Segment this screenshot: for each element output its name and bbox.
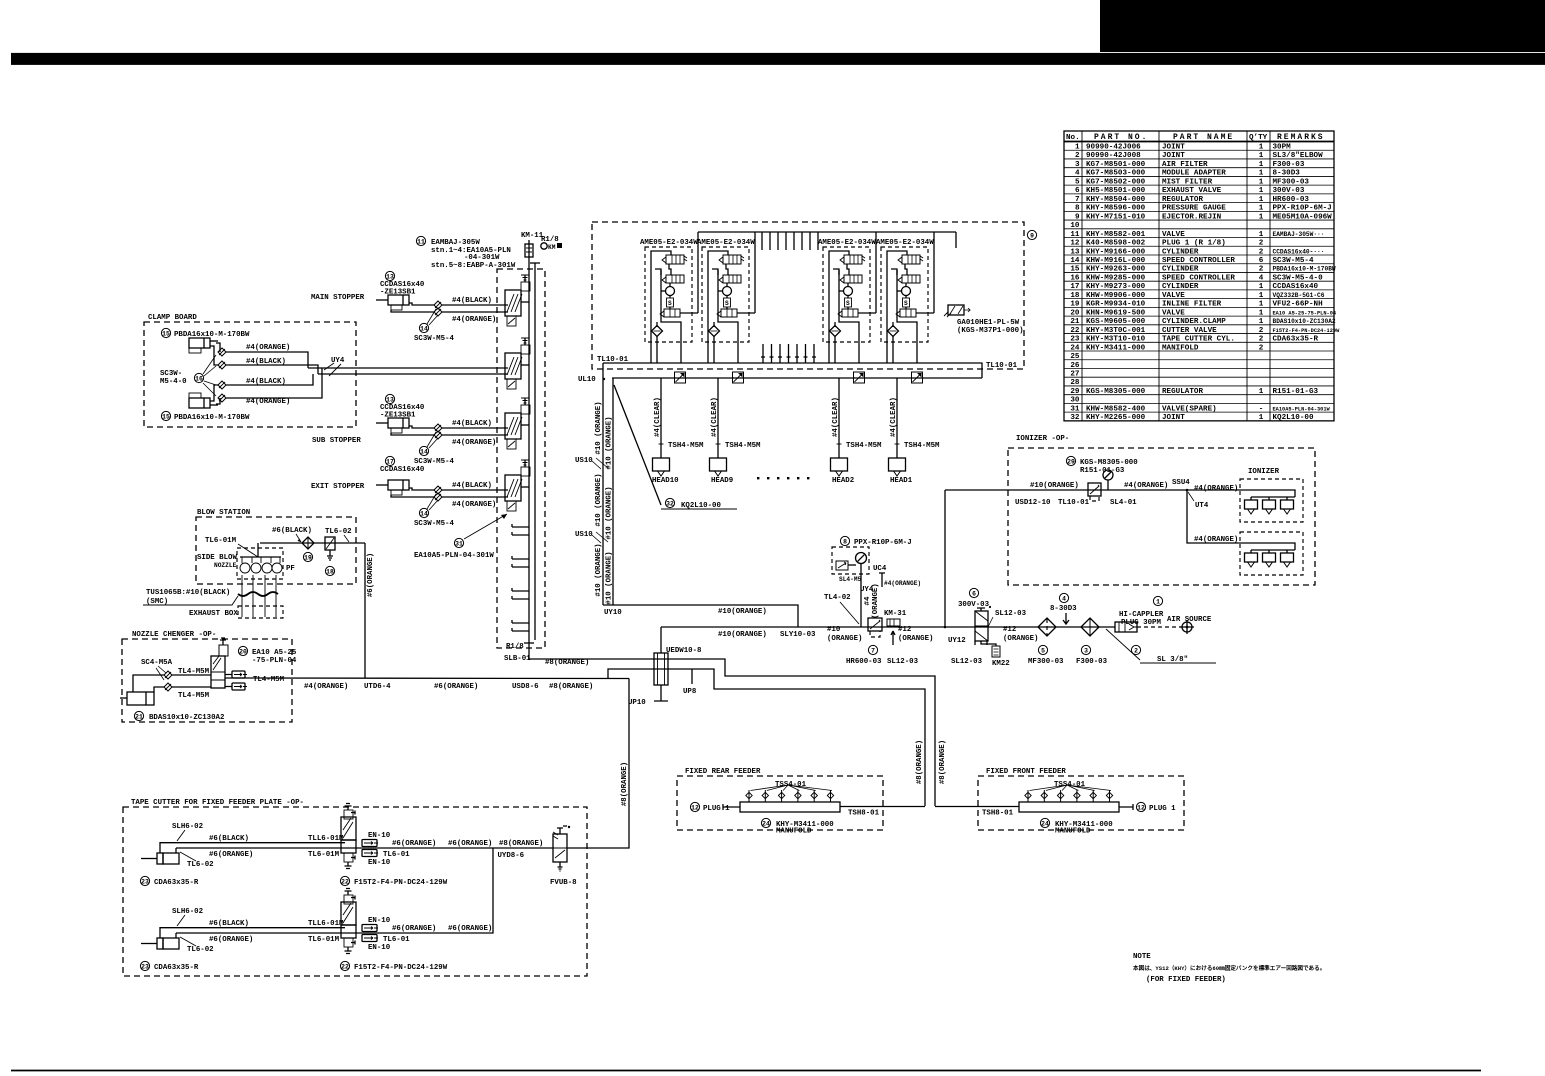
svg-text:#4(ORANGE): #4(ORANGE) <box>246 344 290 352</box>
svg-text:1: 1 <box>1259 178 1264 186</box>
svg-text:SSU4: SSU4 <box>1172 479 1190 487</box>
svg-text:MANUFOLD: MANUFOLD <box>776 828 812 836</box>
svg-text:NOZZLE CHENGER -OP-: NOZZLE CHENGER -OP- <box>132 631 216 639</box>
svg-text:UT4: UT4 <box>1195 502 1209 510</box>
svg-text:VALVE: VALVE <box>1162 231 1185 239</box>
svg-text:AME05-E2-034W: AME05-E2-034W <box>640 239 698 247</box>
svg-text:(ORANGE): (ORANGE) <box>872 583 880 618</box>
svg-text:CCDAS16x40: CCDAS16x40 <box>1273 283 1319 291</box>
svg-text:11: 11 <box>417 238 425 245</box>
svg-text:1: 1 <box>1259 152 1264 160</box>
svg-text:5: 5 <box>1075 178 1080 186</box>
svg-text:20: 20 <box>1070 309 1080 317</box>
svg-text:#4(CLEAR): #4(CLEAR) <box>711 397 719 437</box>
wire #4(BLACK) lower <box>226 374 313 385</box>
wires cylinder upper to controllers <box>216 343 220 352</box>
svg-text:SL4-M5: SL4-M5 <box>839 576 862 583</box>
svg-text:#10: #10 <box>827 626 841 634</box>
plugged station 6 <box>512 559 529 567</box>
svg-text:TSH8-01: TSH8-01 <box>848 810 880 818</box>
svg-text:KHW-M9285-000: KHW-M9285-000 <box>1086 274 1146 282</box>
svg-text:1: 1 <box>1259 161 1264 169</box>
svg-text:6: 6 <box>972 590 976 597</box>
module adapter 4 8-30D3 <box>1059 593 1068 602</box>
svg-text:MODULE ADAPTER: MODULE ADAPTER <box>1162 170 1226 178</box>
svg-text:4: 4 <box>1062 595 1066 602</box>
head HEAD2 <box>838 378 840 458</box>
bank valve 2 (clamp) <box>505 353 521 379</box>
svg-text:PART NO.: PART NO. <box>1094 133 1148 142</box>
svg-text:#4(ORANGE): #4(ORANGE) <box>304 683 348 691</box>
svg-text:9: 9 <box>1075 213 1080 221</box>
svg-text:14: 14 <box>1070 257 1080 265</box>
comb stubs bottom (heads 3-8) <box>761 344 816 363</box>
svg-text:KGS-M8305-000: KGS-M8305-000 <box>1086 388 1146 396</box>
svg-text:15: 15 <box>162 330 170 337</box>
svg-text:2: 2 <box>1259 248 1264 256</box>
svg-text:29: 29 <box>1067 458 1075 465</box>
svg-text:26: 26 <box>1070 362 1080 370</box>
svg-text:REGULATOR: REGULATOR <box>1162 388 1203 396</box>
svg-text:BDAS10x10-ZC130A2: BDAS10x10-ZC130A2 <box>149 714 224 722</box>
svg-text:2: 2 <box>1259 266 1264 274</box>
front feeder supply <box>935 806 1019 808</box>
joint 1 HI-CAPPLER <box>1153 596 1162 605</box>
part labels <box>140 876 149 885</box>
svg-text:TSH4-M5M: TSH4-M5M <box>668 442 704 450</box>
svg-text:PLUG 1 (R 1/8): PLUG 1 (R 1/8) <box>1162 240 1226 248</box>
svg-text:KHY-M8582-001: KHY-M8582-001 <box>1086 231 1146 239</box>
quick exhaust head10 <box>675 372 686 383</box>
svg-text:8: 8 <box>1075 205 1080 213</box>
svg-text:16: 16 <box>1070 274 1080 282</box>
supply drop lines US10 <box>602 363 604 605</box>
svg-text:ME05M10A-096W: ME05M10A-096W <box>1273 213 1333 221</box>
svg-text:2: 2 <box>1259 240 1264 248</box>
svg-text:90990-42J006: 90990-42J006 <box>1086 144 1141 152</box>
svg-text:23: 23 <box>141 878 149 885</box>
bank valve 4 (exit stopper) <box>505 475 521 501</box>
svg-text:HR600-03: HR600-03 <box>846 658 882 666</box>
svg-text:#6(ORANGE): #6(ORANGE) <box>367 553 375 597</box>
svg-text:#4: #4 <box>864 596 872 605</box>
svg-text:#10(ORANGE): #10(ORANGE) <box>1030 482 1079 490</box>
wire #4(BLACK) upper <box>226 365 318 374</box>
svg-text:(ORANGE): (ORANGE) <box>898 635 933 643</box>
svg-text:KM: KM <box>548 244 556 251</box>
speed controller 16d <box>218 394 226 402</box>
svg-text:KHY-M3T10-010: KHY-M3T10-010 <box>1086 336 1146 344</box>
svg-text:#4(CLEAR): #4(CLEAR) <box>654 397 662 437</box>
svg-text:22: 22 <box>1070 327 1080 335</box>
speed controller 14b <box>434 493 442 501</box>
svg-text:KM22: KM22 <box>992 660 1010 668</box>
svg-text:#4(BLACK): #4(BLACK) <box>246 378 286 386</box>
speed controller 14a <box>434 486 442 494</box>
svg-text:-04-301W: -04-301W <box>464 254 500 262</box>
svg-text:(ORANGE): (ORANGE) <box>1003 635 1038 643</box>
svg-text:UL10: UL10 <box>578 376 596 384</box>
svg-text:VFU2-66P-NH: VFU2-66P-NH <box>1273 301 1324 309</box>
svg-text:PPX-R10P-6M-J: PPX-R10P-6M-J <box>854 539 912 547</box>
svg-text:UTD6-4: UTD6-4 <box>364 683 391 691</box>
main line from nozzle changer <box>225 677 629 680</box>
svg-text:HEAD2: HEAD2 <box>832 477 854 485</box>
svg-text:2: 2 <box>1259 327 1264 335</box>
nozzle changer dashed box <box>122 639 292 722</box>
svg-text:#10 (ORANGE): #10 (ORANGE) <box>606 551 614 604</box>
svg-text:#6(BLACK): #6(BLACK) <box>209 920 249 928</box>
wire USD8-6 to manifold <box>608 669 925 806</box>
pilot risers <box>697 232 699 313</box>
valve FVUB-8 <box>553 834 567 862</box>
svg-text:3: 3 <box>1075 161 1080 169</box>
svg-text:KHW-M916L-000: KHW-M916L-000 <box>1086 257 1146 265</box>
speed controller 16a <box>218 348 226 356</box>
speed controller 16c <box>218 381 226 389</box>
svg-text:US10: US10 <box>575 531 593 539</box>
svg-text:15: 15 <box>1070 266 1080 274</box>
svg-text:30PM: 30PM <box>1273 144 1292 152</box>
wires to speed controllers <box>409 303 434 305</box>
svg-text:MF300-03: MF300-03 <box>1273 178 1310 186</box>
bus UY10 <box>603 605 798 627</box>
EN-10 fittings <box>232 671 245 678</box>
wires to speed controllers <box>409 426 434 428</box>
svg-text:TL4-M5M: TL4-M5M <box>253 676 285 684</box>
svg-text:SPEED CONTROLLER: SPEED CONTROLLER <box>1162 257 1235 265</box>
cylinder label <box>385 271 394 280</box>
clamp board dashed box <box>144 322 356 427</box>
svg-text:#10 (ORANGE): #10 (ORANGE) <box>606 486 614 539</box>
svg-text:13: 13 <box>386 396 394 403</box>
svg-text:CYLINDER: CYLINDER <box>1162 248 1199 256</box>
svg-text:TLL6-01M: TLL6-01M <box>308 920 344 928</box>
svg-text:TUS1065B:#10(BLACK): TUS1065B:#10(BLACK) <box>146 589 230 597</box>
svg-text:KHY-M3T0C-001: KHY-M3T0C-001 <box>1086 327 1146 335</box>
svg-text:11: 11 <box>1070 231 1080 239</box>
rear feeder supply <box>840 806 925 808</box>
svg-text:#6(ORANGE): #6(ORANGE) <box>448 840 492 848</box>
svg-text:IONIZER: IONIZER <box>1248 468 1280 476</box>
svg-text:SL4-01: SL4-01 <box>1110 499 1137 507</box>
svg-text:#4(ORANGE): #4(ORANGE) <box>1194 485 1238 493</box>
svg-text:1: 1 <box>1259 318 1264 326</box>
exhaust valve 6 300V-03 <box>969 588 978 597</box>
cylinder 15 label (upper) <box>161 328 170 337</box>
svg-text:19: 19 <box>1070 301 1080 309</box>
ionizer branch line <box>1187 490 1295 550</box>
svg-text:KM-31: KM-31 <box>884 610 907 618</box>
svg-text:3: 3 <box>1084 647 1088 654</box>
svg-text:#4(ORANGE): #4(ORANGE) <box>1194 536 1238 544</box>
head HEAD9 <box>717 378 719 458</box>
svg-text:TL4-M5M: TL4-M5M <box>178 668 210 676</box>
quick exhaust head2 <box>854 372 865 383</box>
svg-text:#8(ORANGE): #8(ORANGE) <box>549 683 593 691</box>
svg-text:#10 (ORANGE): #10 (ORANGE) <box>595 543 603 596</box>
svg-text:Q’TY: Q’TY <box>1249 134 1268 142</box>
svg-text:(FOR FIXED FEEDER): (FOR FIXED FEEDER) <box>1146 976 1226 984</box>
svg-text:EAMBAJ-305W···: EAMBAJ-305W··· <box>1273 231 1325 238</box>
head pilot top bus <box>698 231 956 233</box>
quick exhaust head9 <box>733 372 744 383</box>
ionizer bar 2 <box>1240 532 1303 575</box>
svg-text:TSH4-M5M: TSH4-M5M <box>904 442 940 450</box>
svg-text:PBDA16x10-M-170BW: PBDA16x10-M-170BW <box>174 331 250 339</box>
svg-text:1: 1 <box>1259 388 1264 396</box>
svg-text:SC3W-M5-4: SC3W-M5-4 <box>414 335 454 343</box>
svg-text:AME05-E2-034W: AME05-E2-034W <box>818 239 876 247</box>
svg-text:21: 21 <box>135 713 143 720</box>
label 9 <box>1027 230 1036 239</box>
svg-text:21: 21 <box>1070 318 1080 326</box>
svg-text:KHY-M3411-000: KHY-M3411-000 <box>1086 344 1146 352</box>
svg-text:F15T2-F4-PN-DC24-129W: F15T2-F4-PN-DC24-129W <box>1273 328 1341 334</box>
svg-text:CLAMP BOARD: CLAMP BOARD <box>148 314 197 322</box>
svg-text:2: 2 <box>1134 647 1138 654</box>
drop to tape cutter <box>567 679 629 849</box>
svg-text:2: 2 <box>1075 152 1080 160</box>
svg-text:17: 17 <box>386 458 394 465</box>
svg-text:S: S <box>668 300 672 307</box>
muffler KM22 <box>981 641 996 646</box>
ionizer bar 1 <box>1240 479 1303 522</box>
speed controller 14a <box>434 301 442 309</box>
svg-text:19: 19 <box>304 554 312 561</box>
svg-text:EA10 A5-25-75-PLN-04: EA10 A5-25-75-PLN-04 <box>1273 310 1337 316</box>
bank supply bus <box>528 240 530 659</box>
valve GA010HE1 <box>948 305 964 315</box>
regulator symbol 29 <box>1088 483 1101 496</box>
svg-text:TL4-M5M: TL4-M5M <box>178 692 210 700</box>
wire #4(ORANGE) upper <box>226 352 308 368</box>
cylinder 15 label (lower) <box>161 411 170 420</box>
svg-text:14: 14 <box>420 448 428 455</box>
svg-text:#10 (ORANGE): #10 (ORANGE) <box>595 401 603 454</box>
svg-text:UY12: UY12 <box>948 637 966 645</box>
svg-text:TLL6-01M: TLL6-01M <box>308 835 344 843</box>
svg-text:CCDAS16x40: CCDAS16x40 <box>380 466 425 474</box>
svg-text:PLUG 30PM: PLUG 30PM <box>1121 619 1161 627</box>
svg-text:F300-03: F300-03 <box>1273 161 1305 169</box>
svg-text:本図は、YS12（KHY）における60㎜固定バンクを標準エア: 本図は、YS12（KHY）における60㎜固定バンクを標準エアー回路図である。 <box>1133 964 1325 972</box>
plugged station 8 <box>512 623 529 631</box>
svg-text:#4(CLEAR): #4(CLEAR) <box>832 397 840 437</box>
svg-text:9: 9 <box>1030 232 1034 239</box>
svg-text:MANIFOLD: MANIFOLD <box>1162 344 1199 352</box>
pressure gauge 8 <box>840 536 849 545</box>
svg-text:KGS-M8305-000: KGS-M8305-000 <box>1080 459 1138 467</box>
regulator 7 HR600-03 <box>868 618 882 631</box>
svg-text:#4(ORANGE): #4(ORANGE) <box>452 439 496 447</box>
svg-text:SL12-03: SL12-03 <box>887 658 919 666</box>
svg-text:F300-03: F300-03 <box>1076 658 1108 666</box>
blow station feed drop <box>364 543 366 678</box>
quick exhaust head1 <box>912 372 923 383</box>
svg-text:EA10 A5-25: EA10 A5-25 <box>252 649 297 657</box>
svg-text:GA010HE1-PL-5W: GA010HE1-PL-5W <box>957 319 1020 327</box>
svg-text:INLINE FILTER: INLINE FILTER <box>1162 301 1222 309</box>
svg-text:UP10: UP10 <box>628 699 646 707</box>
svg-text:25: 25 <box>1070 353 1080 361</box>
svg-text:TL6-01M: TL6-01M <box>308 936 340 944</box>
svg-text:SLH6-02: SLH6-02 <box>172 908 203 916</box>
svg-text:18: 18 <box>1070 292 1080 300</box>
head section dashed box <box>592 222 1024 369</box>
svg-text:SL12-03: SL12-03 <box>951 658 983 666</box>
svg-text:SC3W-M5-4: SC3W-M5-4 <box>414 458 454 466</box>
svg-text:SL12-03: SL12-03 <box>995 610 1027 618</box>
svg-text:SC3W-M5-4: SC3W-M5-4 <box>414 520 454 528</box>
svg-text:R151-01-G3: R151-01-G3 <box>1080 467 1125 475</box>
cylinder PBDA upper <box>189 338 210 348</box>
svg-text:VALVE: VALVE <box>1162 292 1185 300</box>
row2 orange wire <box>176 848 493 933</box>
svg-text:EN-10: EN-10 <box>368 859 391 867</box>
svg-text:#4(ORANGE): #4(ORANGE) <box>452 501 496 509</box>
svg-text:32: 32 <box>1070 414 1080 422</box>
speed controller 14b <box>434 308 442 316</box>
pointer lines 16 <box>203 355 216 374</box>
svg-text:AME05-E2-034W: AME05-E2-034W <box>697 239 755 247</box>
svg-text:4: 4 <box>1075 170 1080 178</box>
svg-text:31: 31 <box>1070 405 1080 413</box>
svg-text:CYLINDER: CYLINDER <box>1162 266 1199 274</box>
svg-text:32: 32 <box>666 500 674 507</box>
svg-text:TSH4-M5M: TSH4-M5M <box>846 442 882 450</box>
svg-text:SPEED CONTROLLER: SPEED CONTROLLER <box>1162 274 1235 282</box>
comb stubs top (heads 3-8) <box>762 232 818 250</box>
mist filter 5 MF300-03 <box>1038 618 1056 636</box>
svg-text:KH5-M8501-000: KH5-M8501-000 <box>1086 187 1146 195</box>
cylinder 21 clamp <box>127 692 154 705</box>
node SL12-03 a <box>891 631 895 645</box>
svg-text:8-30D3: 8-30D3 <box>1050 605 1077 613</box>
cylinder CCDAS <box>388 295 409 305</box>
air filter 3 F300-03 <box>1081 618 1099 636</box>
svg-text:VALVE(SPARE): VALVE(SPARE) <box>1162 405 1217 413</box>
svg-text:7: 7 <box>871 647 875 654</box>
svg-text:SC3W-M5-4-0: SC3W-M5-4-0 <box>1273 274 1324 282</box>
svg-text:UC4: UC4 <box>873 565 887 573</box>
svg-text:UY10: UY10 <box>604 609 622 617</box>
svg-text:1: 1 <box>1259 283 1264 291</box>
svg-text:1: 1 <box>1259 309 1264 317</box>
ellipsis heads 3-8 <box>757 477 809 479</box>
wire #4(BLACK) <box>442 489 508 491</box>
svg-text:EXIT STOPPER: EXIT STOPPER <box>311 483 365 491</box>
valve 31 spare label <box>454 538 463 547</box>
svg-text:-: - <box>1259 405 1264 413</box>
svg-text:17: 17 <box>1070 283 1080 291</box>
svg-text:#4(ORANGE): #4(ORANGE) <box>246 398 290 406</box>
svg-text:12: 12 <box>1137 804 1145 811</box>
svg-text:EJECTOR.REJIN: EJECTOR.REJIN <box>1162 213 1222 221</box>
svg-text:TSH8-01: TSH8-01 <box>982 810 1014 818</box>
svg-text:-75-PLN-04: -75-PLN-04 <box>252 657 297 665</box>
bank valve 1 (main stopper) <box>505 290 521 316</box>
svg-text:EN-10: EN-10 <box>368 944 391 952</box>
svg-text:FIXED REAR FEEDER: FIXED REAR FEEDER <box>685 768 761 776</box>
valve bank dashed box <box>497 269 545 648</box>
wire #4(BLACK) <box>442 427 508 429</box>
svg-text:UEDW10-8: UEDW10-8 <box>666 647 702 655</box>
svg-text:6: 6 <box>1259 257 1264 265</box>
svg-text:JOINT: JOINT <box>1162 414 1185 422</box>
svg-text:#4(ORANGE): #4(ORANGE) <box>884 580 921 587</box>
speed controller 14a <box>434 424 442 432</box>
cylinder label <box>385 394 394 403</box>
svg-text:20: 20 <box>239 648 247 655</box>
svg-text:NOZZLE: NOZZLE <box>214 562 237 569</box>
svg-text:22: 22 <box>341 963 349 970</box>
svg-text:#10(ORANGE): #10(ORANGE) <box>718 608 767 616</box>
svg-text:PF: PF <box>286 565 295 573</box>
svg-text:23: 23 <box>141 963 149 970</box>
svg-text:1: 1 <box>1075 144 1080 152</box>
svg-text:TL6-02: TL6-02 <box>187 946 214 954</box>
svg-text:EXHAUST VALVE: EXHAUST VALVE <box>1162 187 1222 195</box>
svg-text:1: 1 <box>1259 187 1264 195</box>
svg-text:2: 2 <box>1259 336 1264 344</box>
svg-text:#6(ORANGE): #6(ORANGE) <box>434 683 478 691</box>
ionizer dashed box <box>1008 448 1315 585</box>
svg-text:#10(ORANGE): #10(ORANGE) <box>718 631 767 639</box>
label SC3W-M5-4 <box>419 508 428 517</box>
label SC3W-M5-4 <box>419 323 428 332</box>
joint 32 KQ2L10-00 <box>614 385 661 505</box>
svg-text:SIDE BLOW: SIDE BLOW <box>197 554 237 562</box>
svg-text:1: 1 <box>1259 205 1264 213</box>
wires to speed controllers <box>409 488 434 490</box>
svg-text:VALVE: VALVE <box>1162 309 1185 317</box>
svg-text:KGS-M9605-000: KGS-M9605-000 <box>1086 318 1146 326</box>
svg-text:30: 30 <box>1070 397 1080 405</box>
svg-text:#6(ORANGE): #6(ORANGE) <box>209 936 253 944</box>
cylinder CCDAS <box>388 418 409 428</box>
svg-text:PLUG 1: PLUG 1 <box>1149 805 1176 813</box>
svg-text:R1/8: R1/8 <box>506 643 524 651</box>
svg-text:KHY-M9273-000: KHY-M9273-000 <box>1086 283 1146 291</box>
svg-text:#4(ORANGE): #4(ORANGE) <box>452 316 496 324</box>
svg-text:14: 14 <box>420 510 428 517</box>
svg-text:12: 12 <box>1070 240 1080 248</box>
wire #4(ORANGE) <box>442 434 508 436</box>
svg-text:HEAD10: HEAD10 <box>652 477 679 485</box>
svg-text:KGR-M9934-010: KGR-M9934-010 <box>1086 301 1146 309</box>
svg-text:6: 6 <box>1075 187 1080 195</box>
svg-text:SLB-01: SLB-01 <box>504 655 531 663</box>
svg-text:13: 13 <box>1070 248 1080 256</box>
valve 20 symbol <box>219 645 228 656</box>
svg-text:US10: US10 <box>575 457 593 465</box>
svg-text:CCDAS16x40-···: CCDAS16x40-··· <box>1273 248 1325 255</box>
wire #6(BLACK) <box>160 928 345 938</box>
svg-text:S: S <box>846 300 850 307</box>
svg-text:(KGS-M37P1-000): (KGS-M37P1-000) <box>957 327 1024 335</box>
svg-text:1: 1 <box>1259 170 1264 178</box>
svg-text:1: 1 <box>1259 196 1264 204</box>
svg-text:#4(BLACK): #4(BLACK) <box>246 358 286 366</box>
svg-text:UYD8-6: UYD8-6 <box>498 852 525 860</box>
svg-text:29: 29 <box>1070 388 1080 396</box>
svg-text:#10 (ORANGE): #10 (ORANGE) <box>606 416 614 469</box>
row1 orange wire <box>176 847 553 849</box>
svg-text:USD8-6: USD8-6 <box>512 683 539 691</box>
svg-text:#8(ORANGE): #8(ORANGE) <box>939 740 947 784</box>
svg-text:TSH4-M5M: TSH4-M5M <box>725 442 761 450</box>
